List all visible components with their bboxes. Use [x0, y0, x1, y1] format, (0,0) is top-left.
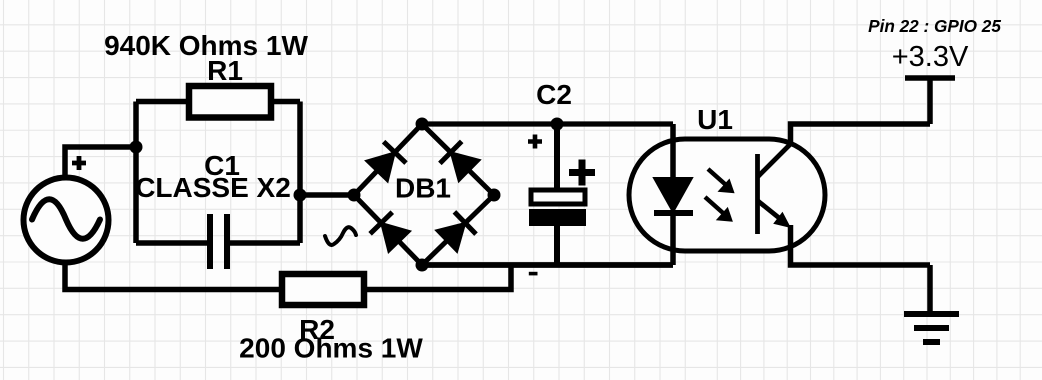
label R2 [299, 314, 335, 345]
wire U1 emitter (bottom right pin) [791, 225, 931, 265]
wire R1 right [270, 99, 300, 105]
value label 200 Ohms 1W [239, 333, 423, 364]
U1 phototransistor [758, 144, 792, 234]
junction node B [294, 189, 307, 202]
label U1 [697, 104, 733, 135]
wire node A to R1 left [136, 99, 190, 105]
ground [904, 314, 959, 342]
diode bridge DB1 frame [354, 124, 494, 265]
wire right branch (R1/C1 right) [297, 102, 303, 244]
resistor R2 [282, 274, 364, 305]
capacitor C2 (polarized) [529, 190, 586, 226]
wire U1 collector (top right pin) [791, 124, 931, 145]
U1 light arrows [705, 169, 735, 222]
svg-text:Pin 22 : GPIO 25: Pin 22 : GPIO 25 [868, 16, 1001, 36]
value label 940K Ohms 1W [104, 30, 308, 61]
svg-text:R1: R1 [207, 55, 243, 86]
svg-text:200 Ohms 1W: 200 Ohms 1W [239, 333, 423, 364]
svg-text:C2: C2 [536, 79, 572, 110]
wire left branch (R1/C1 left) [133, 102, 139, 244]
svg-text:DB1: DB1 [395, 173, 451, 204]
value label CLASSE X2 [135, 172, 291, 203]
wire node B to bridge left [300, 192, 354, 198]
C2 polarity plus [569, 160, 595, 186]
label DB1 [395, 173, 451, 204]
junction bridge bottom vertex [416, 259, 429, 272]
label Pin 22 : GPIO 25 [868, 16, 1001, 36]
U1 internal LED [654, 178, 693, 213]
label C2 [536, 79, 572, 110]
wire R2 right to bridge bottom rail [363, 265, 511, 290]
AC source plus polarity label [72, 156, 86, 170]
wire C1 right [227, 240, 300, 246]
power +3.3V [905, 78, 955, 124]
bridge diode D1 (left to top) [366, 142, 406, 182]
wire bottom rail (bridge - output) [422, 262, 673, 268]
AC input squiggle [325, 227, 356, 245]
optocoupler U1 body [629, 139, 825, 251]
bridge diode D3 (bottom to left) [370, 212, 410, 252]
svg-text:+3.3V: +3.3V [892, 41, 969, 73]
label R1 [207, 55, 243, 86]
minus label bridge output [529, 272, 538, 276]
bridge diode D4 (bottom to right) [436, 212, 476, 252]
junction node C2 top [551, 118, 564, 131]
junction bridge right vertex [488, 189, 501, 202]
svg-text:CLASSE X2: CLASSE X2 [135, 172, 291, 203]
wire AC top to node A [65, 147, 136, 180]
resistor R1 [189, 86, 271, 118]
wire C2 bottom [554, 226, 560, 265]
junction node A [130, 141, 143, 154]
wire U1 LED anode (top pin) [670, 124, 676, 178]
plus label bridge output [528, 135, 542, 149]
wire top rail (bridge + output) [422, 121, 673, 126]
svg-text:U1: U1 [697, 104, 733, 135]
wire to ground [927, 265, 933, 314]
wire C2 top [554, 124, 560, 190]
junction bridge left vertex [348, 189, 361, 202]
AC source V1 [24, 178, 109, 263]
label +3.3V [892, 41, 969, 73]
capacitor C1 [210, 214, 227, 269]
wire AC bottom to R2 [65, 260, 283, 290]
junction bridge top vertex [416, 118, 429, 131]
label C1 [204, 150, 240, 181]
bridge diode D2 (right to top) [440, 141, 480, 181]
wire U1 LED cathode (bottom pin) [670, 213, 676, 265]
wire C1 left [136, 240, 210, 246]
